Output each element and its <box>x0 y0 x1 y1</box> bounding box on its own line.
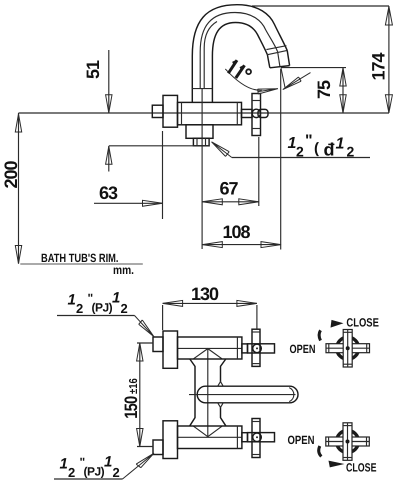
column right edge <box>221 359 226 426</box>
lower handle bands <box>252 421 260 423</box>
hand shower nozzle <box>193 138 209 146</box>
faucet body cylinder <box>178 102 242 124</box>
thread label underline <box>232 157 370 159</box>
dim 51 line upper segment <box>108 50 110 113</box>
dim 67 line <box>202 201 258 203</box>
bottom icon vertical midline <box>347 423 349 461</box>
dim 67 arrow left <box>202 199 222 205</box>
top icon center dot <box>346 346 350 350</box>
spout gooseneck inner wall <box>212 23 267 103</box>
lower body ring <box>236 426 238 449</box>
bottom-left leader arrow <box>123 453 155 479</box>
svg-text:75: 75 <box>314 80 334 99</box>
bottom-left label underline <box>54 478 123 480</box>
column axis line <box>207 348 209 437</box>
svg-text:1: 1 <box>104 454 112 471</box>
bottom icon rotation arrowhead <box>329 461 345 468</box>
tub spout capsule <box>197 386 298 403</box>
top icon horizontal midline <box>326 347 370 349</box>
svg-text:174: 174 <box>369 53 389 81</box>
top-left label underline <box>57 315 135 317</box>
dim 108 line <box>202 244 281 246</box>
angle leader arrow pointing down-left <box>283 73 311 90</box>
dim 63 line <box>94 202 163 204</box>
top icon vertical bar <box>343 330 352 368</box>
thread label top-left <box>68 290 128 317</box>
top icon hub ring <box>337 337 359 359</box>
extension line at handle end <box>258 137 260 206</box>
dim 130 arrow right <box>237 300 257 306</box>
upper valve body <box>178 337 242 359</box>
bottom icon h-bar end bands <box>328 437 330 446</box>
svg-text:130: 130 <box>191 284 219 304</box>
svg-text:BATH TUB'S RIM.: BATH TUB'S RIM. <box>41 251 119 265</box>
centerline of faucet body <box>19 112 390 114</box>
spout gooseneck second shading line <box>204 22 217 89</box>
top reference line at spout apex <box>252 5 389 7</box>
lower handle screw circle <box>253 433 262 442</box>
dim 75 arrow bottom <box>340 95 346 113</box>
capsule joint bump top <box>218 382 224 387</box>
dim 200 line <box>18 113 20 264</box>
spout nozzle joint band lower <box>267 50 287 54</box>
bottom icon center dot <box>346 440 350 444</box>
thread label bottom-left <box>60 454 120 481</box>
dim 150 tick top <box>137 342 153 344</box>
spout nozzle joint band upper <box>266 46 286 50</box>
bottom icon horizontal bar <box>326 437 370 446</box>
column left edge <box>190 359 195 426</box>
leader to nozzle <box>212 142 232 158</box>
dim 150 arrow top <box>137 343 143 361</box>
capsule midline <box>189 394 296 396</box>
svg-text:mm.: mm. <box>113 263 134 277</box>
dim 174 arrow top <box>385 7 392 26</box>
svg-text:1: 1 <box>336 136 345 153</box>
lower handle bar vertical <box>252 419 260 458</box>
bottom icon vertical bar <box>343 423 352 461</box>
svg-text:2: 2 <box>68 465 75 480</box>
dim 200 arrow top <box>15 114 21 132</box>
dim 150 arrow bottom <box>137 429 143 447</box>
svg-text:đ: đ <box>324 140 335 160</box>
upper supply stub <box>153 337 163 352</box>
svg-text:51: 51 <box>83 60 103 79</box>
dim 75 arrow top <box>340 68 346 86</box>
spout end section middle line <box>278 52 280 68</box>
svg-text:2: 2 <box>113 465 120 480</box>
dim 108 arrow left <box>202 242 222 248</box>
dim 51 arrow up <box>106 146 112 164</box>
upper body ring <box>236 337 238 359</box>
lower valve body <box>178 426 242 449</box>
svg-text:108: 108 <box>222 222 250 242</box>
lower handle neck <box>242 433 248 442</box>
svg-text:OPEN: OPEN <box>288 433 315 447</box>
capsule joint bump bottom <box>218 403 224 408</box>
angle arrow at arc end pointing right <box>258 89 278 94</box>
dim 130 line <box>163 302 257 304</box>
body ring right <box>236 102 238 124</box>
dim 63 arrow <box>143 200 163 206</box>
dim 108 arrow right <box>261 242 281 248</box>
thread label upper: 1/2"(d)1/2 <box>288 133 355 160</box>
svg-text:(PJ): (PJ) <box>92 301 113 315</box>
svg-text:CLOSE: CLOSE <box>346 316 379 330</box>
bottom icon v-bar end bands <box>343 425 352 427</box>
dim 51 arrow down <box>106 95 112 113</box>
handle bar top band <box>252 100 261 102</box>
dim 51 lower stem <box>108 146 110 172</box>
upper wall flange <box>163 331 178 368</box>
top icon h-bar end bands <box>328 344 330 353</box>
top-left leader arrow <box>135 316 155 337</box>
svg-text:(PJ): (PJ) <box>84 465 105 479</box>
top icon rotation arrowhead <box>331 320 344 328</box>
svg-text:67: 67 <box>219 178 238 198</box>
handle bar bottom band <box>252 128 261 130</box>
upper funnel triangle <box>194 349 223 359</box>
bottom icon rotation dash <box>319 446 322 457</box>
lower wall flange <box>163 421 178 459</box>
top icon v-bar end bands <box>343 331 352 333</box>
dim 75 line <box>342 68 344 113</box>
handle neck <box>242 109 253 117</box>
svg-text:1: 1 <box>68 292 76 309</box>
11 degree label degree circle <box>246 69 251 74</box>
handle arm nub <box>258 109 268 117</box>
nozzle inner line left <box>196 138 198 146</box>
dim 150 tick bottom <box>137 446 153 448</box>
handle screw cap circle <box>252 109 260 117</box>
upper handle bar vertical <box>252 329 260 366</box>
11 degree label digit 1 <box>228 60 237 73</box>
extension line at wall flange <box>162 131 164 219</box>
spout end section left wall <box>267 55 269 68</box>
nozzle inner line right <box>205 138 207 146</box>
extension line at spout tip <box>280 69 282 250</box>
lower funnel triangle <box>194 426 223 437</box>
dim 67 arrow right <box>239 199 259 205</box>
upper handle neck <box>242 344 248 353</box>
top icon horizontal bar <box>326 344 370 353</box>
svg-text:1: 1 <box>112 290 120 307</box>
dim 130 extension left <box>162 305 164 330</box>
body ring left <box>181 102 183 124</box>
svg-text:2: 2 <box>121 301 128 316</box>
spout end face <box>270 66 290 68</box>
wall flange <box>163 95 178 127</box>
dim 150 line <box>139 343 141 447</box>
bottom icon hub ring <box>337 431 359 453</box>
diverter block <box>186 125 213 139</box>
dim 130 extension right <box>256 305 258 329</box>
dim 130 arrow left <box>163 300 183 306</box>
bottom icon horizontal midline <box>326 441 370 443</box>
bath tub rim line <box>20 263 143 265</box>
top icon rotation dash <box>319 330 321 340</box>
slanted line from spout tip <box>281 68 285 88</box>
upper handle bands <box>252 331 260 333</box>
spout outlet level line <box>281 67 346 69</box>
svg-text:2: 2 <box>76 301 83 316</box>
lower body midline <box>178 436 242 438</box>
upper handle screw circle <box>253 344 262 353</box>
extension line at nozzle center <box>201 89 203 249</box>
spout collar joint line <box>192 88 212 90</box>
spout end section right wall <box>287 50 289 65</box>
top icon vertical midline <box>347 330 349 368</box>
shower outlet level line <box>109 145 209 147</box>
11 degree label digit 2 <box>236 65 245 78</box>
svg-text:CLOSE: CLOSE <box>346 461 377 475</box>
spout gooseneck outer contour <box>192 5 287 103</box>
upper handle cross bar horizontal <box>248 344 275 353</box>
11 degree arc <box>225 69 261 90</box>
lower supply stub <box>153 440 163 455</box>
upper body midline <box>178 347 242 349</box>
handle vertical bar <box>252 94 261 136</box>
svg-text:OPEN: OPEN <box>290 342 316 356</box>
dim 174 line <box>388 6 390 113</box>
svg-text:200: 200 <box>1 161 21 189</box>
svg-text:": " <box>305 133 313 150</box>
wall supply stub <box>152 105 163 117</box>
capsule inner arc right <box>289 388 294 402</box>
spout gooseneck middle shading line <box>200 13 277 89</box>
dim 174 arrow bottom <box>385 95 392 113</box>
dim 200 arrow bottom <box>15 246 21 264</box>
lower handle cross bar horizontal <box>248 433 275 442</box>
svg-text:1: 1 <box>60 456 68 473</box>
svg-text:(: ( <box>314 140 319 157</box>
svg-text:63: 63 <box>99 183 118 203</box>
